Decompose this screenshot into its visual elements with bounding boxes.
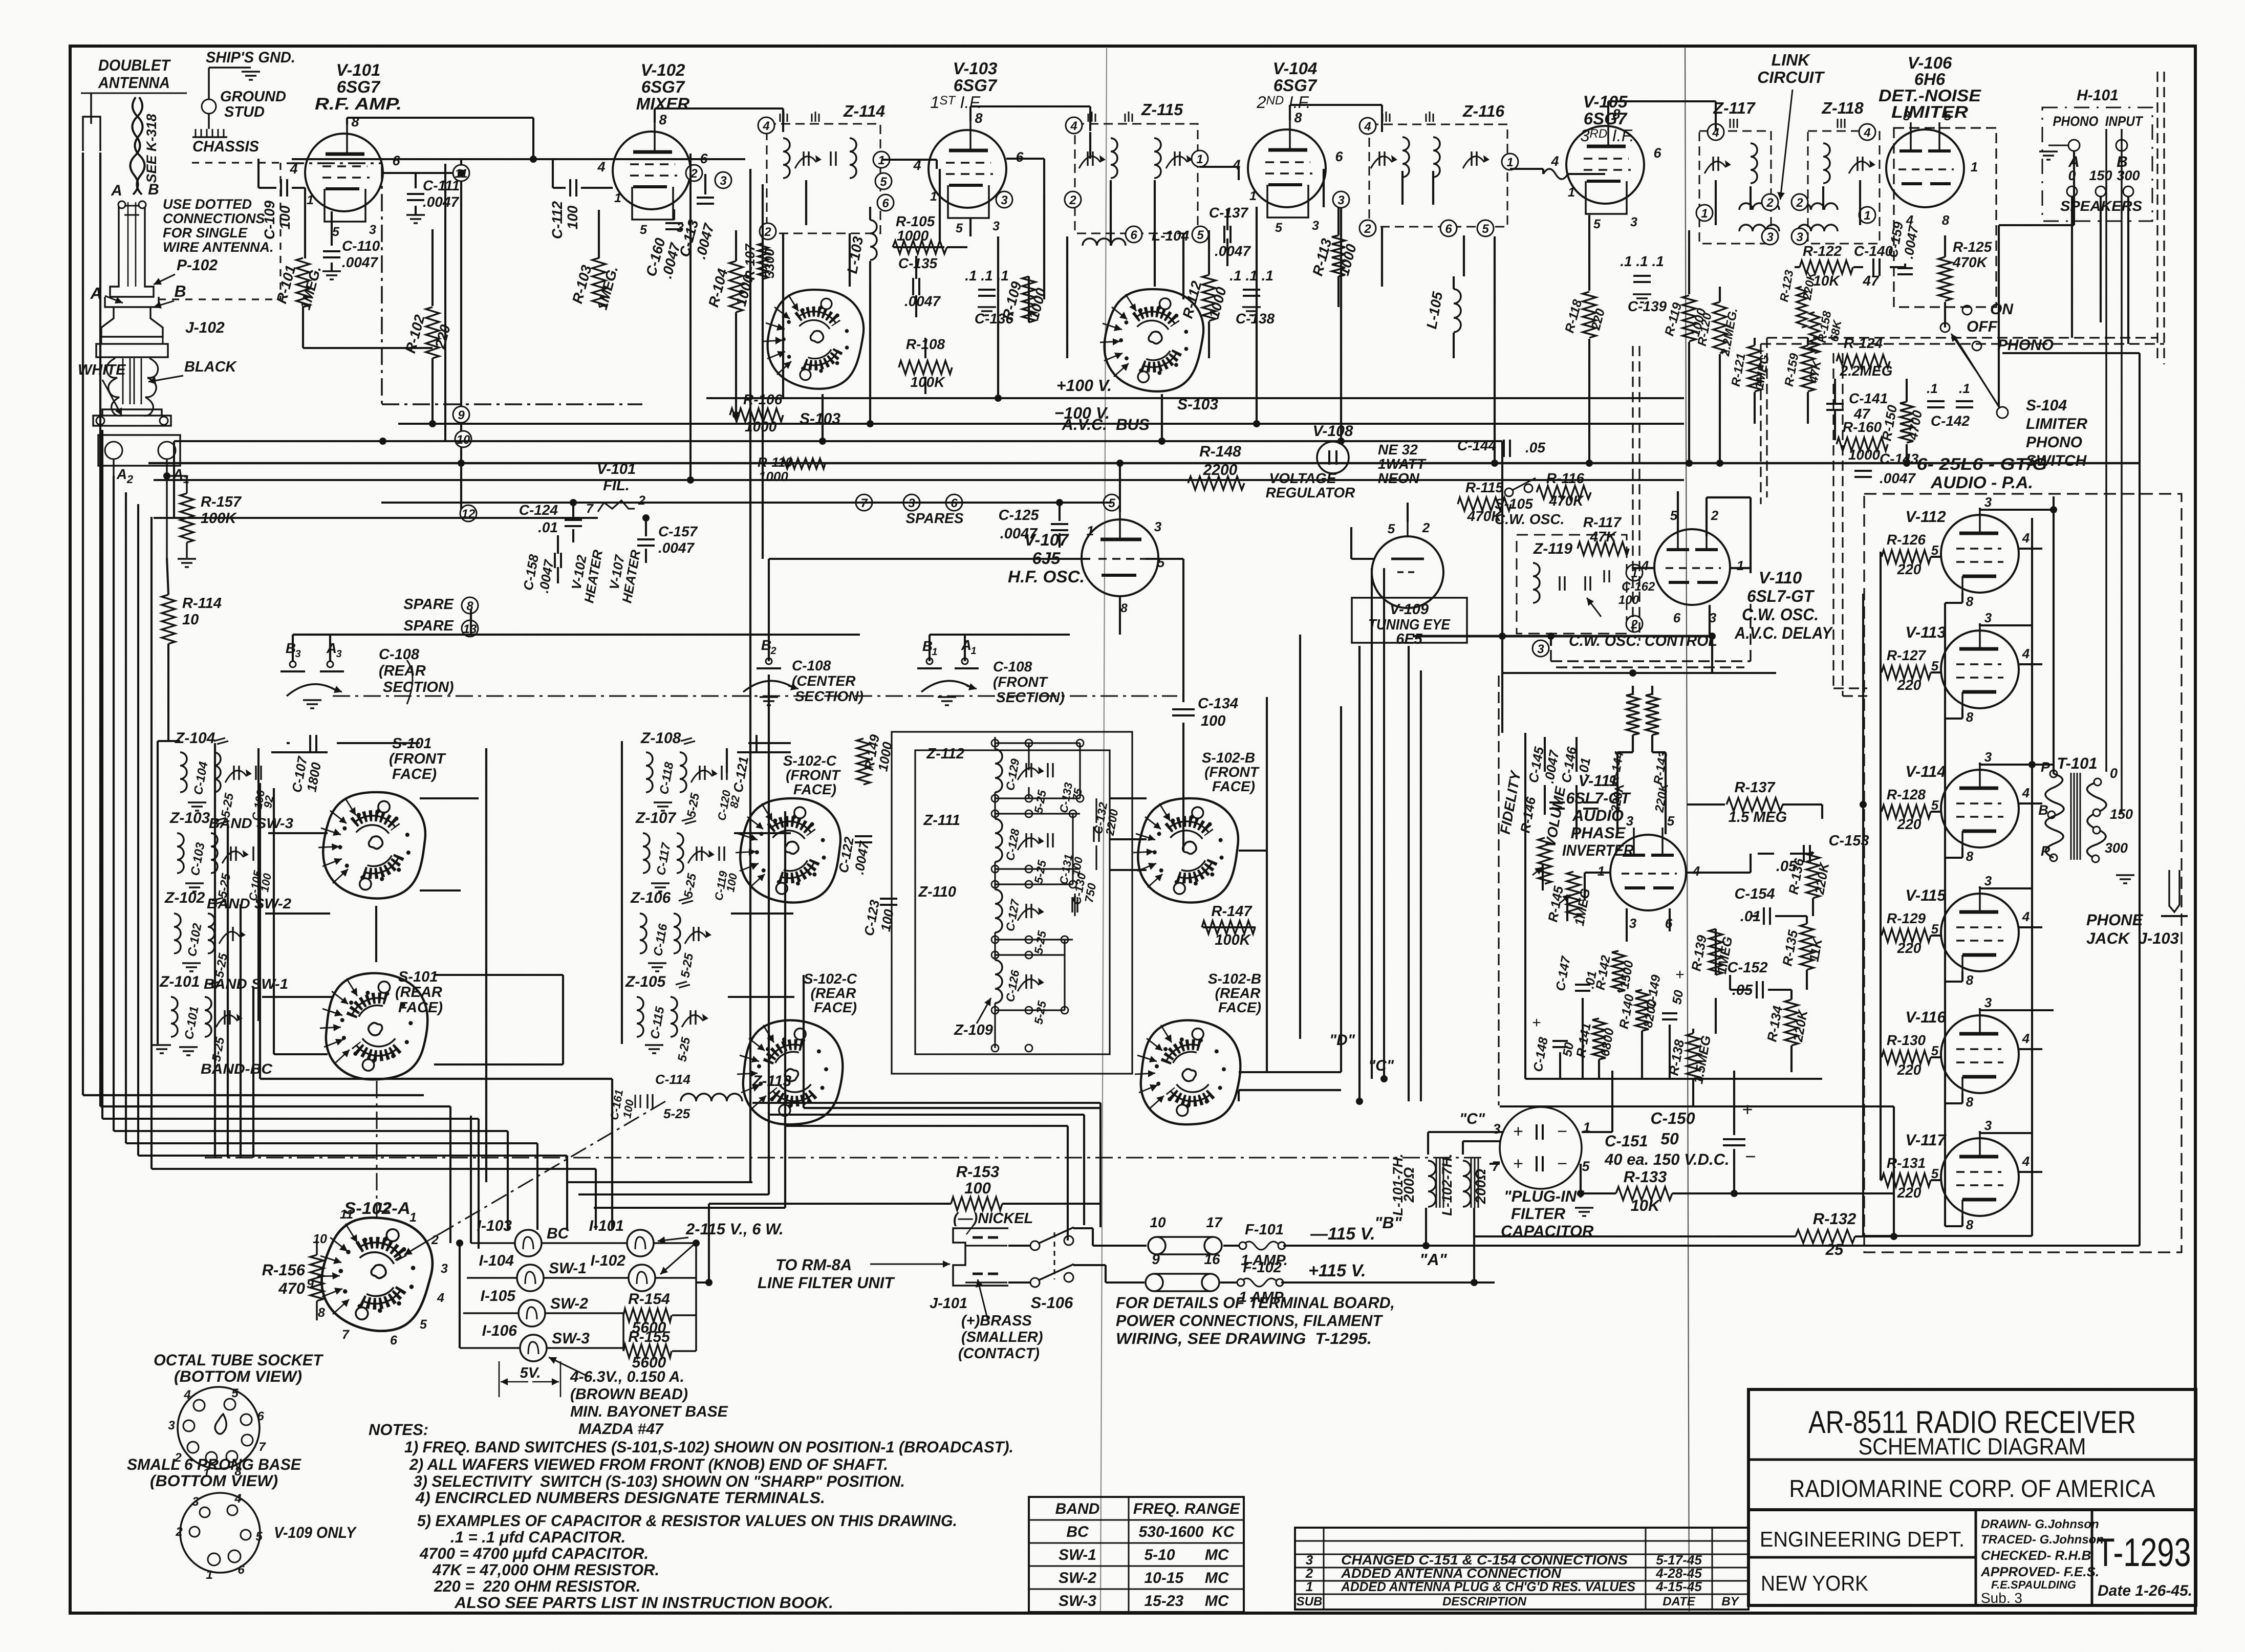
wire audio dashed boundary	[1498, 676, 1499, 1105]
svg-text:7: 7	[342, 1328, 350, 1342]
svg-text:FACE): FACE)	[398, 999, 443, 1016]
svg-text:PHONO: PHONO	[1997, 337, 2054, 354]
sheet section line	[1685, 47, 1689, 1612]
svg-text:Z-112: Z-112	[926, 746, 964, 762]
wire phono leads	[2073, 151, 2075, 225]
svg-text:T-1293: T-1293	[2097, 1530, 2191, 1575]
wire bottom-center nested rects	[749, 169, 751, 1182]
svg-text:BAND-BC: BAND-BC	[201, 1061, 273, 1077]
capacitor C-141	[1826, 403, 1844, 405]
svg-text:C-124: C-124	[519, 502, 558, 518]
svg-text:.1: .1	[1959, 381, 1970, 396]
svg-text:BAND: BAND	[1055, 1501, 1100, 1517]
svg-text:R-147: R-147	[1212, 903, 1253, 920]
svg-text:+100 V.: +100 V.	[1056, 376, 1112, 395]
svg-text:5: 5	[1670, 508, 1678, 523]
svg-text:3: 3	[1626, 813, 1634, 829]
svg-text:1: 1	[1087, 523, 1094, 538]
capacitor C-130	[1071, 897, 1073, 912]
svg-text:200Ω: 200Ω	[1473, 1169, 1488, 1205]
capacitor C-107	[309, 735, 311, 751]
tube V-116	[1941, 1015, 2019, 1093]
wire left bank enclosures	[259, 783, 261, 1079]
svg-text:8: 8	[1966, 849, 1974, 864]
wire osc bank enclosure	[892, 732, 1132, 1074]
svg-text:3: 3	[1629, 916, 1637, 931]
svg-text:1: 1	[1701, 207, 1708, 221]
svg-text:WIRING, SEE DRAWING T-1295.: WIRING, SEE DRAWING T-1295.	[1116, 1330, 1372, 1347]
svg-text:470: 470	[278, 1279, 305, 1297]
resistor R-140	[1635, 990, 1649, 1031]
wire heater drop	[557, 535, 559, 554]
svg-text:R.F. AMP.: R.F. AMP.	[315, 94, 402, 113]
svg-text:.0047: .0047	[423, 194, 459, 210]
svg-text:3: 3	[1766, 230, 1774, 244]
svg-text:C-137: C-137	[1209, 205, 1249, 221]
IF transformer Z-115	[1075, 124, 1198, 233]
svg-text:J-101: J-101	[930, 1295, 967, 1312]
svg-text:6: 6	[1673, 610, 1681, 625]
wire PA grid rails	[1862, 594, 1864, 1236]
svg-text:.1 .1 .1: .1 .1 .1	[1620, 253, 1664, 269]
tube V-103	[929, 130, 1006, 208]
tube V-107 HF oscillator	[1082, 519, 1158, 596]
svg-text:S-103: S-103	[800, 410, 840, 427]
svg-text:5: 5	[1931, 1043, 1939, 1058]
svg-text:1: 1	[1598, 863, 1605, 879]
svg-text:C-111: C-111	[423, 178, 460, 193]
svg-text:B: B	[286, 640, 296, 656]
svg-text:8: 8	[1942, 212, 1950, 228]
wire bottom nested rectangles left	[83, 1094, 424, 1096]
svg-text:V-101: V-101	[336, 60, 381, 79]
resistor R-101	[296, 258, 310, 307]
svg-text:PHONE: PHONE	[2086, 911, 2144, 929]
svg-text:Z-110: Z-110	[918, 884, 956, 900]
svg-text:5V.: 5V.	[520, 1365, 541, 1381]
svg-text:2) ALL WAFERS VIEWED FROM FRON: 2) ALL WAFERS VIEWED FROM FRONT (KNOB) E…	[409, 1455, 888, 1473]
svg-text:5: 5	[1275, 221, 1283, 235]
svg-text:B: B	[174, 282, 186, 300]
svg-text:WIRE ANTENNA.: WIRE ANTENNA.	[163, 240, 274, 255]
svg-text:10-15 MC: 10-15 MC	[1144, 1570, 1229, 1586]
resistor R-109	[1022, 276, 1035, 322]
svg-text:FACE): FACE)	[1212, 778, 1255, 794]
svg-text:2: 2	[175, 1525, 183, 1539]
svg-text:1000: 1000	[1848, 447, 1881, 463]
svg-text:P: P	[2041, 759, 2050, 775]
svg-text:SPARE: SPARE	[403, 618, 454, 634]
svg-text:3: 3	[1796, 230, 1803, 244]
svg-text:8: 8	[1966, 972, 1974, 988]
terminal strip A2 A1	[98, 435, 180, 466]
resistor R-112	[1202, 275, 1216, 321]
svg-text:R-153: R-153	[956, 1163, 999, 1181]
svg-text:470K: 470K	[1549, 493, 1585, 509]
svg-text:3: 3	[1984, 749, 1992, 765]
svg-text:6: 6	[1445, 222, 1452, 236]
svg-text:Z-109: Z-109	[954, 1022, 993, 1038]
resistor R-138	[1687, 1033, 1700, 1079]
svg-text:9: 9	[1152, 1251, 1160, 1267]
svg-text:10K: 10K	[1631, 1197, 1661, 1214]
svg-text:SCHEMATIC DIAGRAM: SCHEMATIC DIAGRAM	[1859, 1433, 2086, 1460]
svg-text:FACE): FACE)	[1218, 999, 1261, 1015]
svg-text:C-154: C-154	[1735, 886, 1775, 902]
svg-text:NEON: NEON	[1378, 470, 1420, 486]
svg-text:4: 4	[762, 119, 769, 133]
svg-text:C-150: C-150	[1650, 1109, 1695, 1127]
svg-text:C-138: C-138	[1236, 311, 1275, 327]
svg-text:V-113: V-113	[1905, 623, 1946, 641]
svg-text:POWER CONNECTIONS, FILAMENT: POWER CONNECTIONS, FILAMENT	[1116, 1312, 1384, 1330]
svg-text:3: 3	[720, 174, 727, 188]
svg-text:SECTION): SECTION)	[383, 679, 454, 695]
svg-text:NOTES:: NOTES:	[369, 1421, 428, 1439]
svg-text:B: B	[148, 181, 159, 198]
svg-text:R-125: R-125	[1953, 239, 1992, 255]
tube V-102	[613, 132, 690, 209]
svg-text:100: 100	[277, 205, 293, 229]
svg-text:(+)BRASS: (+)BRASS	[961, 1313, 1032, 1329]
svg-text:1) FREQ. BAND SWITCHES (S-101,: 1) FREQ. BAND SWITCHES (S-101,S-102) SHO…	[404, 1438, 1013, 1456]
svg-text:V-115: V-115	[1905, 886, 1946, 904]
svg-text:16: 16	[1204, 1251, 1220, 1267]
svg-text:MAZDA #47: MAZDA #47	[578, 1421, 664, 1438]
svg-text:+: +	[1513, 1122, 1523, 1141]
svg-text:47K = 47,000 OHM RESISTOR.: 47K = 47,000 OHM RESISTOR.	[432, 1561, 659, 1579]
coil L-105	[1454, 289, 1461, 332]
svg-text:FACE): FACE)	[793, 781, 836, 797]
svg-text:50: 50	[1660, 1129, 1679, 1148]
svg-text:A: A	[961, 637, 972, 653]
svg-text:R-117: R-117	[1583, 514, 1622, 530]
svg-text:6: 6	[390, 1333, 398, 1347]
wire R-132 run	[1474, 1235, 1796, 1237]
svg-text:3300: 3300	[762, 249, 777, 278]
resistor R-102	[426, 307, 439, 358]
svg-text:3: 3	[1984, 995, 1992, 1010]
wire speakers dashed	[2156, 72, 2158, 358]
svg-text:"C": "C"	[1459, 1111, 1485, 1127]
svg-text:4: 4	[2022, 1154, 2030, 1169]
svg-text:5-10 MC: 5-10 MC	[1144, 1547, 1229, 1563]
svg-text:3: 3	[1154, 519, 1162, 534]
svg-text:15-23 MC: 15-23 MC	[1144, 1593, 1229, 1610]
svg-text:5: 5	[1667, 813, 1675, 829]
svg-text:.0047: .0047	[342, 254, 378, 270]
svg-text:4: 4	[183, 1388, 190, 1402]
svg-text:(FRONT: (FRONT	[1204, 764, 1260, 780]
svg-text:6: 6	[392, 153, 400, 168]
svg-text:+115 V.: +115 V.	[1308, 1261, 1366, 1280]
svg-text:R-154: R-154	[628, 1291, 670, 1308]
svg-text:C-108: C-108	[792, 658, 831, 673]
svg-text:4: 4	[2022, 646, 2030, 661]
plug-in filter capacitor C-151	[1500, 1107, 1582, 1189]
svg-text:FILTER: FILTER	[1511, 1205, 1566, 1223]
svg-text:C-151: C-151	[1605, 1132, 1648, 1150]
svg-text:"D": "D"	[1329, 1032, 1355, 1049]
svg-text:MIXER: MIXER	[636, 94, 690, 113]
wire detector dashed box	[1894, 128, 1996, 307]
svg-text:3: 3	[168, 1419, 175, 1432]
svg-text:GROUND: GROUND	[220, 89, 286, 105]
svg-text:R-132: R-132	[1813, 1210, 1856, 1228]
svg-text:4: 4	[2022, 1031, 2030, 1046]
svg-text:470K: 470K	[1952, 254, 1988, 270]
IF transformer Z-118	[1808, 131, 1880, 244]
wire V-103 plate	[969, 106, 972, 121]
wire center to audio verticals	[1299, 635, 1301, 1039]
svg-text:LINE FILTER UNIT: LINE FILTER UNIT	[758, 1274, 895, 1292]
tube V-106 6H6 detector	[1886, 129, 1964, 207]
svg-text:3: 3	[1001, 193, 1008, 207]
svg-text:220: 220	[1897, 816, 1922, 832]
svg-text:2: 2	[770, 645, 776, 657]
svg-text:.01: .01	[1575, 756, 1593, 777]
svg-text:1: 1	[1568, 185, 1575, 200]
svg-text:220: 220	[1897, 561, 1922, 577]
svg-text:C-134: C-134	[1198, 695, 1238, 712]
svg-text:F-102: F-102	[1243, 1259, 1282, 1276]
svg-text:6: 6	[1653, 145, 1661, 161]
svg-text:1: 1	[1737, 558, 1744, 573]
svg-text:I-104: I-104	[479, 1252, 514, 1269]
svg-text:TRACED- G.Johnson: TRACED- G.Johnson	[1981, 1533, 2104, 1547]
svg-text:R-156: R-156	[262, 1261, 306, 1279]
selectivity switch S-103 right	[1094, 277, 1213, 402]
capacitor C-122	[855, 835, 872, 837]
svg-text:V-102: V-102	[641, 60, 685, 79]
wire CW osc dashed link	[1551, 660, 1751, 662]
svg-text:(SMALLER): (SMALLER)	[961, 1329, 1043, 1345]
wire right coil bank rails	[621, 741, 623, 1044]
resistor R-139	[1709, 929, 1722, 975]
svg-text:4-15-45: 4-15-45	[1655, 1579, 1702, 1594]
resistor R-144	[1626, 694, 1639, 735]
revision table	[1295, 1528, 1748, 1610]
svg-text:VOLTAGE: VOLTAGE	[1269, 470, 1337, 486]
wire S-101 connections	[420, 797, 479, 799]
svg-text:ON: ON	[1990, 301, 2014, 318]
wire tuning eye leads	[1407, 503, 1409, 522]
svg-text:6: 6	[882, 197, 889, 210]
svg-text:10: 10	[1150, 1214, 1166, 1230]
wire left verticals	[173, 441, 175, 518]
svg-text:5: 5	[1582, 1159, 1590, 1174]
svg-text:V-107: V-107	[1024, 530, 1069, 549]
wire detector area	[1795, 266, 1800, 268]
svg-text:8: 8	[1966, 1094, 1974, 1110]
junction dots	[458, 169, 465, 177]
svg-text:3: 3	[441, 1262, 448, 1276]
svg-text:V-116: V-116	[1905, 1008, 1946, 1026]
oscillator coil Z-109	[995, 960, 1002, 1003]
tube V-104	[1248, 129, 1326, 207]
selectivity switch S-103 left	[758, 278, 873, 399]
svg-text:R-129: R-129	[1887, 910, 1926, 926]
tube V-110	[1654, 529, 1730, 605]
svg-text:5: 5	[332, 225, 340, 239]
wire gang dash-dot	[333, 695, 1177, 697]
svg-text:8: 8	[1966, 594, 1974, 609]
wire CW second bus	[1502, 672, 1776, 674]
wire Z-114 to V-103	[881, 159, 937, 161]
svg-text:OFF: OFF	[1967, 318, 1998, 335]
svg-text:FOR SINGLE: FOR SINGLE	[163, 225, 248, 241]
svg-text:100: 100	[565, 205, 580, 229]
svg-text:BAND SW-1: BAND SW-1	[204, 976, 288, 992]
svg-text:R-115: R-115	[1465, 480, 1504, 495]
resistor R-106	[730, 408, 783, 422]
svg-text:R-130: R-130	[1887, 1032, 1926, 1048]
wire PA dashed enclosure	[1864, 494, 2182, 1252]
capacitor C-123	[880, 898, 897, 900]
svg-text:8: 8	[1294, 110, 1302, 125]
svg-text:I-101: I-101	[589, 1218, 624, 1234]
svg-text:C.W. OSC.: C.W. OSC.	[1742, 605, 1819, 624]
svg-text:B: B	[2038, 802, 2048, 818]
svg-text:4) ENCIRCLED NUMBERS DESIGNATE: 4) ENCIRCLED NUMBERS DESIGNATE TERMINALS…	[415, 1489, 825, 1507]
svg-text:STUD: STUD	[224, 104, 265, 120]
wire +100V bus	[706, 397, 1684, 399]
capacitor C-134	[1172, 708, 1195, 710]
svg-text:6SG7: 6SG7	[641, 77, 685, 96]
svg-text:3) SELECTIVITY SWITCH (S-103): 3) SELECTIVITY SWITCH (S-103) SHOWN ON "…	[414, 1472, 905, 1490]
svg-text:APPROVED- F.E.S.: APPROVED- F.E.S.	[1980, 1564, 2099, 1579]
svg-text:R-126: R-126	[1887, 532, 1926, 548]
svg-text:S-102-B: S-102-B	[1202, 750, 1255, 766]
svg-text:C-125: C-125	[999, 507, 1040, 524]
svg-text:Date 1-26-45.: Date 1-26-45.	[2098, 1582, 2192, 1599]
svg-text:Z-119: Z-119	[1533, 540, 1572, 557]
resistor R-118	[1583, 292, 1596, 338]
wire power B A lines	[1223, 1245, 1239, 1247]
svg-text:(REAR: (REAR	[379, 663, 426, 679]
wire band area verticals	[214, 743, 216, 1158]
resistor R-159	[1801, 345, 1815, 392]
svg-text:.1 .1 .1: .1 .1 .1	[1229, 268, 1273, 284]
svg-text:7: 7	[586, 502, 594, 516]
wire S-102-B links	[1110, 797, 1147, 799]
svg-text:6SG7: 6SG7	[1273, 76, 1318, 95]
svg-text:10: 10	[457, 433, 470, 447]
svg-text:50: 50	[1670, 989, 1686, 1005]
svg-text:I-105: I-105	[481, 1288, 516, 1305]
svg-text:R-137: R-137	[1735, 779, 1776, 796]
svg-text:3: 3	[336, 648, 341, 660]
svg-text:5: 5	[1593, 217, 1601, 231]
resistor R-134	[1785, 999, 1798, 1046]
svg-text:.0047: .0047	[904, 293, 941, 309]
plug J-101	[953, 1228, 1008, 1286]
svg-text:5: 5	[640, 223, 647, 237]
svg-text:DOUBLET: DOUBLET	[98, 56, 171, 74]
svg-text:C-152: C-152	[1728, 960, 1768, 976]
svg-text:TO RM-8A: TO RM-8A	[775, 1256, 852, 1274]
svg-text:DRAWN- G.Johnson: DRAWN- G.Johnson	[1981, 1517, 2099, 1531]
svg-text:100: 100	[964, 1179, 991, 1197]
svg-text:SW-3: SW-3	[1059, 1593, 1096, 1610]
svg-text:1: 1	[932, 646, 937, 658]
svg-text:R-116: R-116	[1546, 470, 1585, 486]
svg-text:C-162: C-162	[1622, 580, 1655, 594]
svg-text:9: 9	[458, 408, 465, 422]
svg-text:C-142: C-142	[1931, 413, 1970, 429]
svg-text:Z-105: Z-105	[625, 973, 666, 990]
wire V-102 plate	[654, 108, 656, 122]
svg-text:(BROWN BEAD): (BROWN BEAD)	[570, 1386, 688, 1403]
svg-text:8: 8	[1966, 709, 1974, 725]
antenna plug P-102	[110, 202, 154, 297]
svg-text:Z-111: Z-111	[923, 812, 960, 829]
wire lamp feeds	[459, 1243, 461, 1348]
svg-text:8: 8	[1120, 601, 1128, 615]
resistor R-150	[1900, 402, 1913, 443]
svg-text:2: 2	[1364, 222, 1371, 236]
svg-text:100K: 100K	[1215, 932, 1251, 948]
svg-text:C.W. OSC.: C.W. OSC.	[1495, 511, 1564, 527]
wire bus to PA	[1426, 1245, 2140, 1247]
wire audio bottom bus	[1525, 1078, 1822, 1080]
svg-text:WHITE: WHITE	[78, 362, 126, 378]
svg-text:4: 4	[2022, 785, 2030, 800]
wire speaker leads	[2105, 129, 2107, 772]
wire PA plate rails	[2053, 496, 2055, 774]
ground phone jack	[2116, 874, 2134, 876]
spares terminals top	[856, 494, 872, 511]
svg-text:SMALL 6 PRONG BASE: SMALL 6 PRONG BASE	[127, 1455, 301, 1473]
svg-text:A.V.C. DELAY: A.V.C. DELAY	[1734, 623, 1833, 642]
svg-text:4: 4	[1692, 863, 1700, 879]
wire audio area verticals	[1501, 441, 1503, 733]
wire B3 A3 line	[293, 634, 769, 636]
svg-text:Z-114: Z-114	[843, 102, 885, 120]
svg-text:2: 2	[126, 473, 134, 486]
tube V-115	[1941, 894, 2019, 971]
wire V-110 circuit	[1677, 491, 1679, 532]
svg-text:4-6.3V., 0.150 A.: 4-6.3V., 0.150 A.	[570, 1368, 684, 1385]
svg-text:8: 8	[1966, 1217, 1974, 1232]
wire CW heavy bus	[1413, 635, 1712, 638]
resistor R-120	[1713, 302, 1726, 353]
capacitor C-109	[280, 179, 282, 197]
svg-text:6: 6	[1335, 149, 1343, 164]
svg-text:2: 2	[1422, 520, 1430, 535]
svg-text:CIRCUIT: CIRCUIT	[1757, 68, 1825, 86]
svg-text:ALSO SEE PARTS LIST IN INSTRUC: ALSO SEE PARTS LIST IN INSTRUCTION BOOK.	[454, 1594, 833, 1612]
wire dash-dot bottom run	[205, 1157, 1484, 1159]
svg-text:LIMITER: LIMITER	[2026, 416, 2087, 432]
svg-text:Z-115: Z-115	[1141, 100, 1183, 119]
sheet fold line	[1100, 47, 1107, 1612]
svg-text:C-157: C-157	[658, 524, 698, 539]
svg-text:S-106: S-106	[1031, 1294, 1073, 1312]
svg-text:C-135: C-135	[898, 255, 938, 271]
svg-text:OCTAL TUBE SOCKET: OCTAL TUBE SOCKET	[154, 1351, 324, 1369]
svg-text:25: 25	[1825, 1241, 1844, 1258]
resistor R-136	[1806, 852, 1820, 898]
svg-text:C-112: C-112	[549, 201, 565, 239]
choke L-102	[1463, 1161, 1471, 1207]
svg-text:2.2MEG: 2.2MEG	[1840, 363, 1893, 379]
svg-text:A: A	[111, 182, 122, 199]
svg-text:1: 1	[1971, 159, 1978, 175]
svg-text:2: 2	[1711, 508, 1719, 523]
antenna lead-in	[90, 93, 92, 124]
svg-text:3: 3	[1537, 642, 1544, 656]
